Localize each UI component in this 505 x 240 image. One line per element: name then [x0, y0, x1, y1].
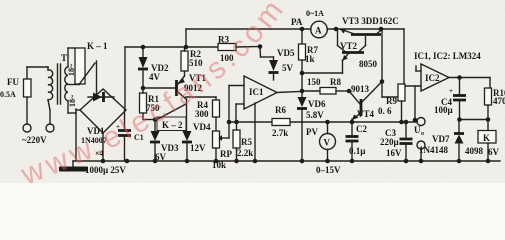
svg-text:FU: FU — [7, 77, 19, 87]
capacitor C3 — [380, 122, 413, 161]
junction R5 top on feedback line — [234, 120, 239, 125]
wire rail corner to VD5 — [260, 47, 274, 58]
relay contact K-1 — [68, 41, 108, 95]
svg-text:VT3 3DD162C: VT3 3DD162C — [342, 16, 399, 26]
junction C1 on ground rail — [125, 159, 130, 164]
capacitor C1 — [85, 110, 144, 175]
svg-text:0.5A: 0.5A — [0, 90, 16, 99]
junction VD7 on ground rail — [457, 159, 462, 164]
svg-text:PA: PA — [291, 17, 303, 27]
terminal Uo+ — [414, 118, 425, 138]
svg-text:o: o — [421, 131, 424, 137]
junction C3 top on feedback line — [404, 120, 409, 125]
junction R8 / VT4 base node — [347, 89, 352, 94]
wire bottom ground rail — [73, 160, 500, 162]
svg-text:470: 470 — [493, 96, 505, 106]
zener VD5 — [269, 48, 295, 80]
svg-text:1k: 1k — [305, 54, 315, 64]
svg-text:2.2k: 2.2k — [237, 148, 253, 158]
resistor R2 — [181, 47, 203, 76]
junction VT1 base / R1 top — [141, 86, 146, 91]
watermark — [16, 0, 292, 192]
svg-text:IC2: IC2 — [425, 73, 440, 83]
zener VD4 12V — [182, 122, 211, 161]
svg-text:18~: 18~ — [68, 94, 77, 107]
svg-text:K – 1: K – 1 — [87, 41, 108, 51]
svg-text:T: T — [61, 53, 67, 63]
resistor R9 0.6 — [378, 84, 405, 122]
svg-text:R5: R5 — [241, 137, 252, 147]
junction C2 on ground rail — [350, 159, 355, 164]
fuse FU — [0, 67, 31, 124]
resistor R10 470 — [485, 78, 505, 131]
junction C4 top on IC2 output — [457, 75, 462, 80]
junction Uo- on ground rail — [419, 159, 424, 164]
junction R5 on ground rail — [234, 159, 239, 164]
svg-text:16V: 16V — [386, 148, 402, 158]
wire upper rail — [186, 28, 404, 30]
junction IC1 output / R8 node — [300, 89, 305, 94]
svg-text:1000µ 25V: 1000µ 25V — [85, 165, 126, 175]
svg-text:VD6: VD6 — [308, 99, 326, 109]
junction PV on ground rail — [325, 159, 330, 164]
feedback line (output sense) — [229, 121, 417, 123]
junction relay K on ground rail — [486, 159, 491, 164]
wire upper rail riser — [185, 29, 187, 47]
junction R9 bottom on feedback line — [399, 120, 404, 125]
resistor R7 — [299, 29, 319, 97]
resistor R3 — [218, 35, 236, 64]
diode VD7 1N4148 — [419, 120, 464, 161]
svg-text:0~1A: 0~1A — [306, 9, 324, 18]
wire VT3 collector vertical — [382, 29, 397, 97]
junction RP on ground rail — [214, 159, 219, 164]
capacitor C2 — [346, 122, 368, 161]
svg-text:R8: R8 — [330, 77, 341, 87]
svg-text:R6: R6 — [275, 105, 286, 115]
ground — [59, 161, 87, 172]
transistor VT2 8050 — [338, 29, 378, 69]
terminal ~220V left — [23, 124, 31, 132]
wire R7 node to VT2 emitter — [302, 60, 343, 73]
svg-text:~220V: ~220V — [22, 135, 47, 145]
op-amp IC2 — [405, 51, 490, 120]
junction VD3 on ground rail — [153, 159, 158, 164]
svg-text:+: + — [449, 87, 453, 95]
svg-text:5V: 5V — [282, 63, 294, 73]
capacitor C4 — [434, 78, 466, 121]
transistor VT3 3DD162C — [340, 16, 399, 35]
terminal ~220V right — [22, 110, 54, 145]
junction VD2 top on +rail — [141, 45, 146, 50]
zener VD2 — [138, 47, 169, 88]
wire bridge to +rail — [124, 47, 126, 110]
ammeter PA 0~1A — [291, 9, 327, 38]
svg-text:IC1, IC2: LM324: IC1, IC2: LM324 — [414, 51, 481, 61]
wire VT1 collector to R4 and VD4 — [186, 97, 216, 131]
wire C4 node to K — [460, 119, 489, 121]
svg-text:0. 6: 0. 6 — [378, 106, 392, 116]
transistor VT4 9013 — [349, 82, 382, 123]
svg-text:RP: RP — [220, 149, 232, 159]
relay contact K-2 — [143, 104, 186, 131]
svg-text:2.7k: 2.7k — [272, 128, 288, 138]
svg-text:K: K — [483, 133, 490, 143]
terminal Uo- — [417, 141, 425, 161]
junction VT4 emitter / C2 top — [350, 120, 355, 125]
svg-text:5.8V: 5.8V — [306, 110, 324, 120]
svg-text:1N4148: 1N4148 — [419, 145, 448, 155]
relay coil K — [465, 131, 500, 162]
resistor R6 — [272, 105, 290, 138]
transformer T — [27, 53, 77, 110]
junction bridge minus on ground rail — [101, 159, 106, 164]
svg-text:4098: 4098 — [465, 146, 484, 156]
resistor R1 — [140, 88, 161, 120]
resistor R4 — [195, 100, 220, 119]
svg-text:8050: 8050 — [359, 59, 378, 69]
voltmeter PV 0-15V — [306, 122, 341, 175]
potentiometer RP — [212, 117, 232, 170]
junction VD6 on ground rail — [300, 159, 305, 164]
junction C4/VD7 node — [457, 117, 462, 122]
wire secondary bottom — [68, 101, 80, 161]
svg-text:VD4: VD4 — [193, 122, 211, 132]
svg-text:PV: PV — [306, 127, 318, 137]
svg-text:VT4: VT4 — [357, 109, 375, 119]
junction VT2 node on upper rail — [334, 27, 339, 32]
junction R2/upper-rail riser — [184, 45, 189, 50]
junction IC2 feedback riser — [413, 118, 418, 123]
svg-text:VD5: VD5 — [277, 48, 295, 58]
op-amp IC1 — [229, 76, 300, 161]
junction VD4 on ground rail — [185, 159, 190, 164]
junction rail end to VD5 — [258, 44, 263, 49]
svg-text:IC1: IC1 — [249, 87, 264, 97]
junction R7/VT2 emitter node — [300, 71, 305, 76]
svg-text:9013: 9013 — [351, 84, 370, 94]
svg-text:C2: C2 — [356, 124, 367, 134]
wire rail right corner to R9 — [403, 29, 405, 84]
svg-text:300: 300 — [195, 109, 209, 119]
svg-text:VT2: VT2 — [340, 41, 358, 51]
svg-text:4V: 4V — [149, 72, 161, 82]
svg-text:A: A — [315, 26, 322, 36]
junction RP wiper riser on feedback line — [227, 120, 232, 125]
junction VT3 collector on upper rail — [379, 27, 384, 32]
bridge rectifier VD1 — [80, 89, 126, 158]
junction PV tap on feedback line — [325, 120, 330, 125]
svg-text:220µ: 220µ — [380, 137, 400, 147]
junction IC1 V- on ground rail — [253, 159, 258, 164]
svg-text:U: U — [414, 125, 421, 135]
svg-text:12V: 12V — [190, 143, 206, 153]
resistor R5 — [233, 122, 253, 161]
transistor VT1 9012 — [143, 73, 207, 99]
svg-text:V: V — [324, 138, 331, 148]
svg-text:0–15V: 0–15V — [316, 165, 341, 175]
svg-text:VD7: VD7 — [432, 134, 450, 144]
junction C3 on ground rail — [404, 159, 409, 164]
svg-text:R9: R9 — [386, 96, 397, 106]
svg-text:100µ: 100µ — [434, 105, 454, 115]
wire bridge bottom to ground rail — [102, 133, 104, 161]
svg-text:0.1µ: 0.1µ — [349, 146, 366, 156]
junction R7 on upper rail — [300, 27, 305, 32]
wire lower +rail — [125, 46, 260, 49]
svg-text:150: 150 — [307, 77, 321, 87]
zener VD6 5.8V — [297, 97, 326, 161]
zener VD3 6V — [150, 120, 179, 163]
junction R10/relay K node — [486, 117, 491, 122]
resistor R8 — [302, 77, 349, 94]
svg-text:6V: 6V — [488, 147, 500, 157]
junction K-2/VD3 node — [153, 117, 158, 122]
junction VT4 collector node — [380, 79, 385, 84]
